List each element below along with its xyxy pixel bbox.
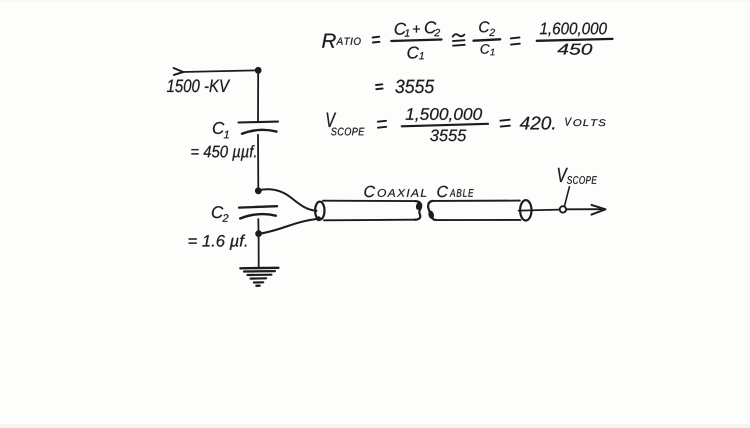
eq1 fraction bar 1 [391, 40, 441, 42]
coax segment 1 end cap ink blob [415, 201, 423, 211]
eq3 units OLTS [573, 119, 605, 126]
wire: source to node A [182, 70, 256, 72]
eq1 equals 1 bar2 [373, 41, 380, 44]
eq1 equals 2 bar2 [511, 43, 520, 46]
coax segment 2 end cap ink blob [428, 210, 435, 219]
ground bar 3 [248, 274, 272, 276]
eq3 equals 2 bar2 [501, 125, 510, 128]
output arrowhead [592, 205, 606, 215]
label C2 [212, 206, 224, 218]
eq1 denominator C [408, 47, 420, 59]
wire: C2 to node C [257, 219, 259, 231]
label Vscope sub (circuit) [567, 176, 597, 184]
node B (junction) [255, 187, 262, 194]
value label C1 450uuf [191, 145, 255, 161]
label C2 subscript [222, 214, 228, 222]
source arrow [174, 68, 184, 75]
eq1 frac3 num 1600000 [540, 23, 607, 37]
eq1 numerator plus [413, 25, 420, 32]
eq1 label ATIO [336, 38, 361, 45]
junction blob at coax shield entry [316, 216, 321, 221]
leader line to Vscope label [565, 187, 570, 206]
ground bar 6 [256, 285, 259, 287]
coax segment 2 top shield line [433, 200, 520, 202]
wire: C1 to node B [257, 135, 259, 188]
eq1 numerator C2 [425, 21, 437, 33]
coax segment 2 right end cap [520, 200, 531, 220]
eq3 equals 2 bar1 [500, 120, 509, 121]
eq1 label R [322, 34, 336, 48]
eq1 equals 1 bar1 [373, 36, 380, 39]
coax segment 1 bottom shield line [324, 219, 415, 222]
eq3 label V [327, 113, 337, 127]
label COAXIAL CABLE C1g [364, 186, 375, 197]
eq1 fraction bar 2 [474, 39, 501, 40]
ground bar 5 [254, 281, 263, 283]
label COAXIAL CABLE rest2 [450, 189, 474, 197]
eq1 congruent tilde [453, 34, 465, 36]
eq1 frac3 den 450 [557, 44, 592, 55]
eq3 label scope sub [331, 128, 364, 136]
eq1 numerator C [395, 23, 407, 35]
coax segment 1 left end cap [315, 202, 324, 220]
wire: node C to ground [258, 234, 260, 268]
eq1 equals 2 bar1 [511, 37, 520, 38]
ground bar 4 [251, 277, 267, 280]
eq2 equals bar1 [376, 83, 382, 86]
eq1 numerator sub1 [405, 29, 410, 36]
eq3 denominator 3555 [430, 130, 466, 142]
eq1 frac2 num C [479, 21, 489, 32]
eq3 result 420. [520, 117, 555, 130]
eq3 fraction bar [402, 124, 488, 127]
node A (junction) [255, 67, 262, 74]
scope node (open circle) [560, 206, 566, 212]
label 1500-kV [167, 79, 230, 92]
coax segment 1 top shield line [323, 200, 416, 202]
wire: node A to C1 [257, 70, 259, 121]
eq3 numerator 1500000 [406, 108, 483, 122]
eq1 numerator sub2 [434, 29, 440, 36]
ground bar 1 [240, 267, 278, 270]
capacitor C1 top plate [239, 121, 279, 124]
eq3 equals 1 bar1 [378, 120, 386, 123]
eq1 frac2 num sub2 [489, 29, 495, 36]
label Vscope V (circuit) [558, 168, 568, 182]
label COAXIAL CABLE C2g [437, 186, 448, 197]
label C1 [213, 122, 225, 134]
node C (junction) [255, 230, 262, 237]
coax segment 2 left end cap [428, 201, 436, 220]
eq3 equals 1 bar2 [378, 126, 386, 129]
eq1 fraction bar 3 [537, 39, 613, 41]
wire: node B to coax center conductor [258, 189, 316, 211]
value label C2 1.6uf [189, 235, 247, 250]
capacitor C1 bottom plate [242, 130, 277, 134]
coax segment 1 right end cap [415, 201, 422, 220]
capacitor C2 top plate [239, 206, 277, 207]
eq3 units V [565, 118, 572, 126]
wire: scope node to arrow [566, 208, 603, 210]
coax segment 2 bottom shield line [436, 219, 521, 221]
label C1 subscript [224, 131, 229, 139]
eq1 frac2 den C [481, 44, 490, 54]
eq2 value 3555 [395, 80, 434, 94]
capacitor C2 bottom plate [240, 214, 276, 218]
wire: node C to coax shield [259, 219, 319, 234]
wire: coax shield to scope node [519, 210, 560, 211]
eq1 frac2 den sub1 [490, 49, 494, 56]
eq1 congruent bar1 [453, 39, 465, 42]
eq2 equals bar2 [376, 88, 382, 91]
eq1 congruent bar2 [453, 44, 465, 47]
label COAXIAL CABLE rest1 [378, 189, 427, 197]
eq1 denominator sub1 [419, 52, 424, 59]
ground bar 2 [244, 270, 275, 273]
